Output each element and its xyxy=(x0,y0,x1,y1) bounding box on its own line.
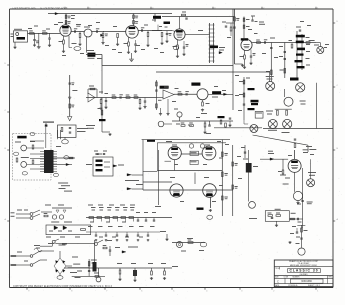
svg-text:SIZE: SIZE xyxy=(275,277,279,279)
svg-text:C: C xyxy=(277,279,279,283)
svg-text:30301380: 30301380 xyxy=(301,280,312,283)
svg-text:12/16/94 tlh: 12/16/94 tlh xyxy=(288,284,297,287)
svg-text:COPYRIGHT 1994 PEAVEY ELECTRON: COPYRIGHT 1994 PEAVEY ELECTRONICS CORP. … xyxy=(13,285,113,288)
svg-text:ALL FILTERS GRID NO. 7: ALL FILTERS GRID NO. 7 xyxy=(40,8,68,11)
svg-text:SHEET 1 OF 1: SHEET 1 OF 1 xyxy=(308,285,320,287)
svg-text:MERIDIAN, MISSISSIPPI 39301: MERIDIAN, MISSISSIPPI 39301 xyxy=(290,264,317,267)
svg-text:NUMBER: NUMBER xyxy=(293,277,301,279)
svg-text:CODE: CODE xyxy=(284,277,289,279)
svg-text:(GUITAR): (GUITAR) xyxy=(300,273,308,276)
svg-text:TITLE: TITLE xyxy=(275,268,279,270)
svg-text:LAST REVISED 4/99: LAST REVISED 4/99 xyxy=(12,8,36,11)
svg-text:CLASSIC 30: CLASSIC 30 xyxy=(289,269,318,273)
